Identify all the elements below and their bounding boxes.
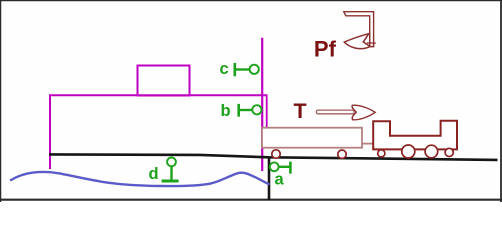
locomotive wheel 3 (425, 145, 438, 158)
marker b circle (252, 105, 261, 114)
ship hull left edge (49, 96, 51, 170)
marker b line (239, 109, 253, 111)
trailer wheel right (338, 150, 346, 158)
svg-text:c: c (220, 60, 229, 78)
mast (261, 38, 263, 171)
svg-text:T: T (294, 99, 307, 123)
locomotive wheel 1 (378, 150, 385, 157)
dock ground line (49, 154, 498, 160)
svg-text:d: d (149, 165, 159, 183)
svg-text:Pf: Pf (314, 37, 337, 62)
marker b tick (237, 104, 240, 117)
locomotive wheel 2 (402, 145, 415, 158)
marker c line (235, 68, 250, 70)
marker c circle (250, 65, 259, 74)
locomotive body (373, 121, 457, 150)
trailer wheel left (272, 150, 280, 158)
marker d circle (167, 158, 176, 167)
ship hull right edge (266, 95, 268, 128)
marker d base (162, 180, 179, 183)
svg-text:a: a (275, 170, 285, 188)
marker a circle (270, 162, 279, 171)
locomotive wheel 4 (445, 148, 453, 156)
force T arrow shaft (316, 110, 354, 114)
ship deck line (49, 94, 268, 96)
marker d stem (170, 166, 172, 180)
marker c tick (234, 63, 237, 76)
dock wall (268, 158, 271, 201)
svg-text:b: b (221, 102, 231, 120)
marker a line (279, 166, 291, 168)
water wave (11, 172, 269, 186)
border frame (0, 0, 502, 2)
force Pf arrow shaft (bent) (344, 12, 374, 47)
force Pf arrowhead (344, 34, 370, 49)
trailer hitch (362, 143, 374, 145)
marker a tick (289, 162, 292, 174)
force Pf arrow foot (367, 35, 376, 47)
cabin (138, 66, 190, 96)
trailer body (262, 128, 362, 148)
force T arrowhead (352, 105, 375, 120)
